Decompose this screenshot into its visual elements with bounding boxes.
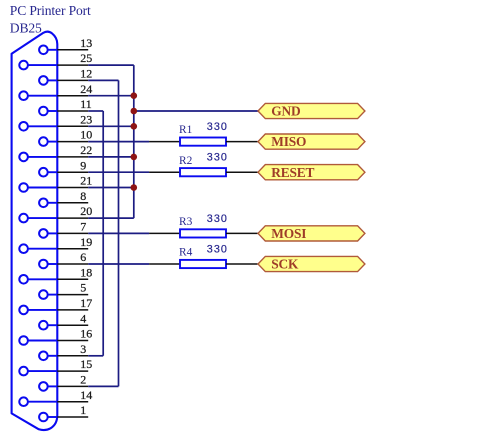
junction dot pin21 on gnd bus [131, 184, 138, 191]
net flag MOSI [258, 226, 365, 241]
pin 4 [39, 311, 88, 329]
wire pin12 to vertical net [88, 79, 118, 81]
pin 24 [19, 82, 92, 100]
resistor R3 330 [149, 213, 257, 238]
svg-text:15: 15 [80, 357, 92, 371]
svg-text:19: 19 [80, 235, 92, 249]
junction dot pin23 on gnd bus [131, 123, 138, 130]
junction dot pin22 on gnd bus [131, 154, 138, 161]
pin 17 [19, 296, 92, 314]
wire pin6 to R4 [88, 263, 149, 265]
pin 25 [19, 51, 92, 69]
svg-text:14: 14 [80, 388, 92, 402]
svg-text:SCK: SCK [271, 257, 299, 272]
pin 7 [39, 220, 88, 238]
svg-text:PC Printer Port: PC Printer Port [10, 3, 91, 18]
resistor R2 330 [149, 152, 257, 177]
wire pin23 to gnd bus [88, 125, 134, 127]
svg-text:1: 1 [80, 403, 86, 417]
svg-text:16: 16 [80, 327, 92, 341]
pin 5 [39, 281, 88, 299]
svg-text:GND: GND [271, 104, 301, 119]
svg-text:RESET: RESET [271, 165, 314, 180]
wire pin2 to vertical net [88, 385, 118, 387]
wire pin24 to gnd bus [88, 95, 134, 97]
svg-text:R3: R3 [179, 216, 193, 228]
pin 9 [39, 158, 88, 176]
wire pin7 to R3 [88, 232, 149, 234]
svg-text:18: 18 [80, 265, 92, 279]
pin 15 [19, 357, 92, 375]
pin 10 [39, 128, 92, 146]
svg-text:3: 3 [80, 342, 86, 356]
vertical wire gnd bus [133, 65, 135, 218]
vertical wire net pin12-pin2 [118, 80, 120, 386]
vertical wire net pin11-pin3 [102, 111, 104, 356]
svg-text:24: 24 [80, 82, 92, 96]
svg-text:MOSI: MOSI [271, 226, 306, 241]
pin 19 [19, 235, 92, 253]
svg-text:11: 11 [80, 97, 92, 111]
junction dot GND wire on gnd bus [131, 108, 138, 115]
svg-text:12: 12 [80, 67, 92, 81]
svg-text:4: 4 [80, 311, 86, 325]
wire pin20 to gnd bus [88, 217, 134, 219]
pin 11 [39, 97, 92, 115]
svg-text:2: 2 [80, 373, 86, 387]
svg-text:R1: R1 [179, 124, 193, 136]
pin 12 [39, 67, 92, 85]
net flag GND [258, 103, 365, 118]
wire pin22 to gnd bus [88, 156, 134, 158]
svg-text:9: 9 [80, 158, 86, 172]
svg-text:330: 330 [207, 121, 228, 133]
svg-text:330: 330 [207, 243, 228, 255]
net flag SCK [258, 256, 365, 271]
svg-text:R4: R4 [179, 247, 193, 259]
pin 20 [19, 204, 92, 222]
pin 21 [19, 174, 92, 192]
svg-text:MISO: MISO [271, 134, 306, 149]
pin 2 [39, 373, 88, 391]
pin 23 [19, 112, 92, 130]
pin 22 [19, 143, 92, 161]
net flag RESET [258, 165, 365, 180]
svg-text:23: 23 [80, 112, 92, 126]
pin 3 [39, 342, 88, 360]
pin 8 [39, 189, 88, 207]
pin 14 [19, 388, 92, 406]
pin 18 [19, 265, 92, 283]
svg-text:17: 17 [80, 296, 92, 310]
wire pin25 to gnd bus [88, 64, 134, 66]
pin 1 [39, 403, 88, 421]
svg-text:25: 25 [80, 51, 92, 65]
svg-text:DB25: DB25 [10, 20, 42, 35]
svg-text:8: 8 [80, 189, 86, 203]
wire pin11 to vertical net [88, 110, 103, 112]
wire pin10 to R1 [88, 141, 149, 143]
wire pin3 to vertical net [88, 355, 103, 357]
svg-text:330: 330 [207, 213, 228, 225]
svg-text:5: 5 [80, 281, 86, 295]
svg-text:6: 6 [80, 250, 86, 264]
wire gnd bus to GND flag [134, 110, 258, 112]
pin 13 [39, 36, 92, 54]
svg-text:330: 330 [207, 152, 228, 164]
pin 6 [39, 250, 88, 268]
svg-text:22: 22 [80, 143, 92, 157]
connector DB25 body outline [12, 32, 58, 430]
svg-text:20: 20 [80, 204, 92, 218]
svg-text:21: 21 [80, 174, 92, 188]
svg-text:10: 10 [80, 128, 92, 142]
pin 16 [19, 327, 92, 345]
wire pin21 to gnd bus [88, 187, 134, 189]
resistor R1 330 [149, 121, 257, 146]
svg-text:13: 13 [80, 36, 92, 50]
wire pin9 to R2 [88, 171, 149, 173]
svg-text:7: 7 [80, 220, 86, 234]
resistor R4 330 [149, 243, 257, 268]
junction dot pin24 on gnd bus [131, 92, 138, 99]
svg-text:R2: R2 [179, 155, 193, 167]
net flag MISO [258, 134, 365, 149]
